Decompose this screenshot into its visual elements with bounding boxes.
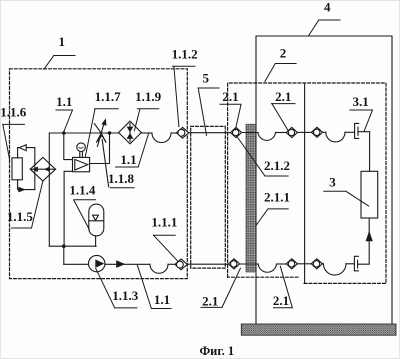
wire: top pipe in box 1 [50, 132, 119, 134]
svg-text:2.1: 2.1 [275, 89, 291, 104]
expansion tank 1.1.4 [89, 204, 104, 246]
label 1.1.2 leader [173, 66, 196, 126]
wire: bottom pipe pump outlet [105, 263, 150, 265]
label 1.1.5 leader [11, 181, 43, 228]
wire: pipe crossing loop (top, box 1) [152, 133, 171, 143]
node: junction on top pipe at valve return [108, 131, 112, 135]
svg-text:1.1: 1.1 [120, 152, 136, 167]
node: junction on bottom header [62, 244, 66, 248]
svg-text:2.1: 2.1 [273, 293, 289, 308]
union connector 1.1.1 [175, 259, 187, 270]
wire: reservoir top loop with return arrow [18, 148, 35, 158]
svg-text:1.1.1: 1.1.1 [151, 215, 177, 230]
svg-text:4: 4 [324, 0, 331, 14]
regulating valve 1.1.8 on top pipe [94, 118, 108, 186]
wire: top pipe to connector 1.1.2 [171, 132, 177, 134]
wire: top pipe from connector 2.1 through wall [241, 132, 258, 134]
arrow (filled) on reservoir bottom wire [18, 187, 26, 193]
interior partition line [304, 84, 306, 283]
wire: main drop from top pipe through exchanger 1.1.5 [48, 133, 50, 246]
wire: top connecting pipe through zone 5 [188, 132, 230, 134]
node: junction on top pipe at branch to valve [62, 131, 66, 135]
wire: pipe crossing loop (top right) [326, 132, 345, 142]
wire: lower radiator to riser with up arrow into rect 3 [358, 218, 369, 264]
heater / riser 3 [361, 171, 378, 218]
svg-text:1.1.6: 1.1.6 [0, 104, 27, 119]
label 1 leader [44, 56, 75, 70]
wire: top pipe across partition [297, 131, 311, 133]
union connector (bottom, inner circuit) [311, 259, 322, 269]
reservoir 1.1.6 [12, 158, 22, 180]
svg-text:Фиг. 1: Фиг. 1 [199, 344, 234, 358]
wire: pipe crossing loop (bottom right) [323, 264, 346, 275]
wire: bottom pipe into lower radiator [346, 263, 354, 265]
label 5 leader [198, 88, 219, 135]
svg-text:3: 3 [329, 174, 336, 189]
svg-text:2.1.2: 2.1.2 [264, 158, 290, 173]
svg-text:2.1: 2.1 [222, 89, 238, 104]
label 2.1.1 leader [256, 209, 288, 226]
label 2.1.2 leader [236, 136, 288, 176]
union connector 2.1 (bottom left) [228, 259, 239, 269]
radiator 3.1 (top) [355, 123, 359, 138]
union connector 1.1.2 [176, 127, 188, 138]
radiator 3.1 (bottom) [354, 256, 358, 271]
svg-text:1.1: 1.1 [56, 94, 72, 109]
flow arrow on bottom pipe [116, 260, 125, 268]
svg-text:2: 2 [280, 45, 287, 60]
label 1.1.7 leader [85, 109, 118, 158]
label 1.1 (top) leader [56, 110, 73, 132]
label 1.1 (bottom) leader [137, 265, 171, 309]
svg-text:1.1.9: 1.1.9 [135, 89, 162, 104]
building 4 (walls) [256, 36, 392, 324]
wire: pipe crossing loop (bottom, after wall) [258, 264, 276, 272]
wire: reservoir loop riser through exchanger 1.1.5 [34, 148, 36, 190]
dashed box 5 (connecting-line zone) [191, 126, 226, 268]
svg-text:1.1: 1.1 [154, 292, 170, 307]
svg-text:1.1.7: 1.1.7 [95, 89, 122, 104]
wire: bottom pipe from tank branch to pump [64, 263, 89, 265]
label 2.1 (top left) leader [220, 104, 241, 130]
svg-text:5: 5 [203, 71, 210, 86]
label 2.1 (bottom left) leader [201, 268, 240, 307]
wire: bottom pipe from connector 2.1 through wall [240, 263, 258, 265]
flow arrow up into heater 3 [366, 231, 373, 242]
svg-text:1.1.8: 1.1.8 [108, 171, 135, 186]
ground / floor slab [241, 324, 396, 335]
union connector 2.1 (top right) [286, 127, 297, 137]
svg-text:1.1.2: 1.1.2 [172, 46, 198, 61]
wire: top pipe to second 2.1 connector [276, 132, 287, 134]
wire: top pipe from diamond 1.1.9 to loop [141, 132, 152, 134]
wire: top pipe into radiator 3.1 [345, 131, 355, 133]
label 1.1.9 leader [134, 109, 158, 131]
wire: drop from junction to bottom pipe [63, 246, 65, 264]
svg-text:1.1.4: 1.1.4 [69, 183, 96, 198]
label 3 leader [324, 191, 369, 206]
label 1.1.6 leader [3, 124, 25, 160]
wire: pipe crossing loop (top, after wall) [258, 133, 276, 141]
heat exchanger 1.1.5 [30, 157, 55, 181]
svg-text:1: 1 [59, 34, 66, 49]
label 2.1 (bottom right) leader [274, 266, 293, 308]
arrow (open) on reservoir top wire [19, 145, 26, 151]
label 2.1 (top right) leader [272, 104, 296, 130]
wire: bottom connecting pipe through zone 5 [186, 263, 228, 265]
svg-text:2.1: 2.1 [202, 294, 218, 309]
svg-text:2.1.1: 2.1.1 [264, 190, 290, 205]
label 1.1.4 leader [74, 200, 96, 230]
wire: pipe crossing loop (bottom, box 1) [150, 264, 168, 273]
label 1.1.3 leader [96, 269, 137, 308]
wire: bottom pipe to connector 1.1.1 [168, 263, 175, 265]
label 2 leader [265, 64, 296, 82]
dashed box 1 (outdoor unit boundary) [10, 69, 188, 279]
pump 1.1.3 [89, 255, 105, 271]
union connector 2.1 (bottom right) [286, 259, 297, 269]
svg-text:3.1: 3.1 [352, 94, 368, 109]
wire: valve 1.1.7 lower port to bottom header [64, 171, 72, 246]
svg-text:1.1.3: 1.1.3 [112, 288, 139, 303]
wire: top pipe to radiator loop [322, 131, 325, 133]
svg-text:1.1.5: 1.1.5 [7, 209, 34, 224]
wire: reservoir bottom loop [18, 180, 35, 190]
motorized valve 1.1.7 [73, 143, 90, 172]
label 3.1 leader [350, 110, 373, 131]
wire: radiator outlet to riser [358, 132, 369, 172]
label 1.1 (middle) leader [116, 134, 149, 168]
wall heat-exchange panel 2.1.1 [246, 124, 256, 272]
wire: valve 1.1.7 right port back to top pipe [90, 133, 110, 164]
heat exchanger / air unit 1.1.9 [119, 121, 142, 144]
wire: bottom pipe to radiator return loop [322, 263, 323, 265]
union connector 2.1 (top left) [230, 127, 241, 137]
label 4 leader [309, 20, 340, 35]
wire: bottom pipe to mid connector [277, 263, 286, 265]
label 1.1.1 leader [154, 235, 178, 261]
label 1.1.8 underline [110, 187, 134, 189]
wire: bottom pipe across partition [297, 263, 311, 265]
wire: bottom header to tank riser [49, 245, 96, 247]
dashed box 2 (indoor system boundary) [228, 83, 386, 283]
union connector (top, inner circuit) [311, 127, 322, 137]
wire: branch from top pipe down to valve 1.1.7 inlet [64, 133, 73, 160]
